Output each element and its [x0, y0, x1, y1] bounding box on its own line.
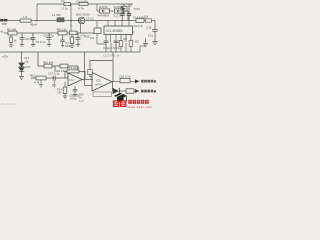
capacitor C11	[104, 41, 109, 52]
resistor R9	[129, 41, 133, 47]
watermark cap icon	[114, 93, 127, 102]
svg-text:C20 4.7μ: C20 4.7μ	[119, 75, 131, 79]
svg-text:0.1μ: 0.1μ	[63, 7, 69, 11]
svg-text:45μH: 45μH	[30, 23, 37, 27]
svg-text:100k: 100k	[65, 44, 71, 48]
wire bottom left branch	[38, 52, 78, 73]
svg-text:0.01μ: 0.01μ	[70, 96, 77, 100]
svg-text:0.01: 0.01	[148, 33, 154, 37]
svg-text:R8: R8	[124, 37, 128, 41]
wire riser x97 to diode row	[96, 4, 98, 11]
diode D2	[115, 9, 124, 13]
capacitor C18 to ground	[73, 86, 78, 96]
wire drop x128	[127, 11, 129, 21]
wire right branch riser	[139, 46, 141, 52]
op-amp IC2	[68, 73, 82, 86]
svg-text:10k: 10k	[90, 36, 95, 40]
wire riser x71	[70, 4, 72, 21]
svg-text:IC2: IC2	[70, 78, 75, 82]
op-amp IC1 box	[104, 26, 133, 35]
capacitor C9	[31, 33, 36, 46]
node label frame	[93, 92, 112, 97]
wire stub x113	[112, 52, 114, 60]
svg-text:IC3: IC3	[96, 79, 101, 83]
resistor R2 on main wire right	[136, 19, 144, 23]
capacitor C5	[76, 33, 81, 46]
capacitor C17	[53, 76, 55, 81]
diode D4	[113, 88, 119, 94]
wire riser x71 lower	[70, 21, 72, 32]
op-amp IC3	[92, 73, 112, 92]
resistor R8	[119, 41, 123, 47]
ferrite bead L2	[57, 18, 64, 22]
wire opamp1 input line	[31, 77, 68, 79]
wire lower rail	[0, 51, 140, 53]
svg-text:R6 1.2k: R6 1.2k	[57, 27, 67, 31]
svg-text:BG1 3DG6: BG1 3DG6	[76, 12, 90, 16]
label input 输入	[0, 19, 7, 25]
capacitor C12	[114, 41, 119, 52]
svg-text:C15: C15	[24, 56, 30, 60]
svg-text:R13 100k: R13 100k	[67, 66, 80, 70]
capacitor C2 on top rail	[64, 3, 71, 6]
arrow output Y	[135, 89, 140, 93]
inductor L1	[20, 19, 31, 22]
diode mark D2	[117, 10, 120, 13]
svg-text:10k: 10k	[144, 15, 149, 19]
ground under C17	[52, 81, 56, 89]
svg-text:W2: W2	[135, 39, 139, 43]
svg-text:C12 0.047μ 1k: C12 0.047μ 1k	[103, 54, 120, 57]
resistor R14 to ground	[63, 82, 67, 99]
svg-text:R5 100: R5 100	[7, 27, 16, 31]
wire R3 leads	[97, 21, 106, 45]
wire IC3 output	[112, 81, 135, 91]
capacitor C13 right edge	[152, 21, 158, 45]
watermark text 电子下载站	[128, 100, 148, 104]
pin drops IC1 bottom	[106, 35, 131, 43]
svg-text:2CP10: 2CP10	[99, 5, 108, 9]
wire mid rail	[4, 32, 94, 34]
svg-text:10k: 10k	[57, 90, 62, 94]
transistor BG1	[78, 17, 85, 24]
ground right cluster	[140, 39, 148, 47]
node dot x71	[70, 20, 72, 22]
resistor R7 vertical	[70, 35, 74, 48]
resistor R17 on feedback	[88, 70, 92, 75]
resistor R16	[60, 64, 68, 68]
svg-text:C2: C2	[61, 0, 65, 3]
watermark red block 2	[120, 100, 127, 107]
svg-text:R11: R11	[30, 74, 35, 78]
svg-text:IC1 5G555: IC1 5G555	[107, 29, 123, 33]
svg-text:4.7k: 4.7k	[78, 7, 84, 11]
capacitor C21	[126, 89, 134, 93]
node dot x37	[36, 20, 38, 22]
feedback resistor R13	[65, 70, 93, 80]
capacitor C16 below R6	[60, 35, 64, 47]
capacitor C8	[20, 33, 25, 46]
svg-text:www.dzsc.com: www.dzsc.com	[128, 105, 152, 109]
diode D5 boxed	[121, 4, 127, 14]
arrow output X	[135, 79, 140, 83]
pin risers IC1 top	[108, 21, 129, 27]
wire main input line	[0, 20, 155, 22]
wire emitter drop x80.5	[80, 24, 82, 33]
svg-text:C3 0.1: C3 0.1	[86, 17, 94, 21]
svg-text:C9 4.7μ: C9 4.7μ	[36, 40, 46, 44]
background paper	[0, 0, 160, 110]
label 接示波器X	[141, 80, 156, 83]
diode mark D1	[102, 10, 105, 13]
svg-text:R10 47k: R10 47k	[43, 60, 54, 64]
svg-text:1.5: 1.5	[23, 15, 28, 19]
svg-text:10μ: 10μ	[25, 59, 30, 63]
svg-text:μA741: μA741	[95, 84, 103, 87]
capacitor C20	[120, 78, 130, 82]
resistor R18 on main wire	[146, 19, 152, 22]
svg-text:jdbpcb.com: jdbpcb.com	[0, 102, 17, 106]
wire riser x37	[36, 4, 38, 21]
svg-text:R2 4.7k: R2 4.7k	[134, 24, 144, 28]
resistor R12	[36, 76, 46, 80]
svg-text:C19: C19	[79, 100, 84, 103]
svg-text:0.01μ 4.7k 0.1μ: 0.01μ 4.7k 0.1μ	[103, 46, 121, 50]
label 接示波器Y	[141, 90, 156, 93]
svg-text:→100: →100	[82, 34, 90, 38]
svg-text:L2 330: L2 330	[52, 13, 61, 17]
resistor R10	[44, 64, 52, 68]
resistor R20 on mid rail	[70, 31, 78, 35]
diode D1	[100, 9, 110, 13]
watermark red block 1	[113, 100, 120, 107]
wire pins to rail	[111, 43, 131, 52]
capacitor C7	[127, 4, 132, 21]
wire diode row rail	[97, 10, 128, 12]
resistor R3 before IC	[94, 28, 101, 34]
svg-text:⊸12V: ⊸12V	[1, 55, 8, 59]
svg-text:C6C7: C6C7	[134, 7, 141, 11]
ground under R12	[39, 80, 43, 88]
resistor R6 on mid rail	[58, 31, 67, 35]
svg-text:C10 47μ: C10 47μ	[43, 34, 54, 38]
capacitor C6	[120, 11, 125, 21]
svg-text:4.7k: 4.7k	[34, 81, 40, 85]
svg-text:2CP: 2CP	[25, 65, 31, 69]
capacitor C10	[47, 33, 52, 46]
svg-text:C13: C13	[147, 25, 152, 29]
svg-text:C17 0.1μ: C17 0.1μ	[48, 72, 60, 76]
resistor R19 vertical with ground	[9, 35, 13, 48]
resistor R5 on mid rail	[8, 31, 17, 35]
diode LED D3 stack	[19, 52, 25, 79]
wire top rail	[37, 3, 133, 5]
feedback loop IC3	[85, 52, 114, 86]
svg-text:4×IN4007: 4×IN4007	[97, 14, 110, 18]
resistor R1 on top rail	[79, 3, 88, 6]
